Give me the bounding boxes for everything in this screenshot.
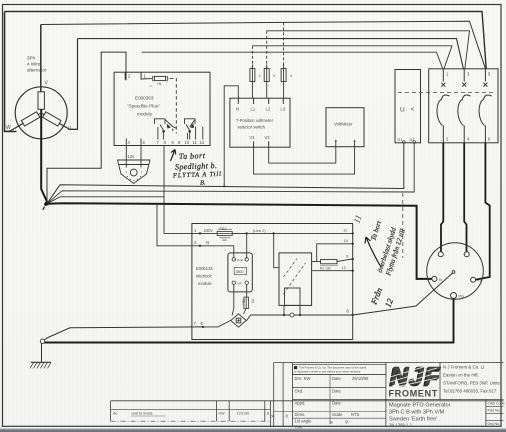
ground xyxy=(41,344,43,363)
svg-text:D2: D2 xyxy=(410,138,415,142)
svg-text:Date: Date xyxy=(332,389,342,394)
wire inner module bottom left to earth diamond xyxy=(232,284,234,315)
wire fuse tap L2 (dash) xyxy=(266,31,268,68)
svg-text:Appd.: Appd. xyxy=(295,401,306,406)
svg-text:5: 5 xyxy=(143,140,146,145)
svg-text:+3: +3 xyxy=(477,279,481,283)
svg-text:3Ph C B with 3Ph V/M: 3Ph C B with 3Ph V/M xyxy=(389,410,445,416)
svg-text:9: 9 xyxy=(346,253,349,258)
annotation handwritten note Ta bort xyxy=(172,151,221,186)
svg-text:CAD Code: CAD Code xyxy=(488,402,505,406)
annotation handwritten arrow (module) xyxy=(171,150,176,162)
svg-text:3: 3 xyxy=(273,74,275,78)
svg-text:7: 7 xyxy=(194,321,197,326)
wire breaker pin2 to connector xyxy=(441,143,443,252)
svg-text:Spedlight b.: Spedlight b. xyxy=(175,161,217,171)
svg-text:2N.1399.1.2: 2N.1399.1.2 xyxy=(389,423,412,428)
svg-text:Ta bort: Ta bort xyxy=(179,151,206,161)
svg-text:1: 1 xyxy=(194,228,197,233)
svg-text:9: 9 xyxy=(164,140,167,145)
undervoltage release U< xyxy=(395,70,421,143)
fuse FS3 xyxy=(264,65,269,99)
voltmeter M1 xyxy=(326,108,364,147)
svg-text:2: 2 xyxy=(128,74,131,79)
wire fan1 neutral to D1 xyxy=(48,143,404,203)
svg-text:1: 1 xyxy=(144,74,147,79)
fuse FS2 xyxy=(250,65,255,99)
svg-text:E00b134: E00b134 xyxy=(196,266,213,271)
drawing title xyxy=(389,403,451,428)
svg-text:4: 4 xyxy=(128,140,131,145)
svg-text:E: E xyxy=(201,321,204,326)
svg-text:Easton on the Hill,: Easton on the Hill, xyxy=(443,373,479,378)
resistor R1 xyxy=(312,261,321,263)
svg-text:Från: Från xyxy=(368,286,384,306)
svg-text:interlock: interlock xyxy=(196,274,212,279)
svg-text:11: 11 xyxy=(193,140,198,145)
svg-text:3Ph: 3Ph xyxy=(27,56,36,61)
wire N tap to interlock pin2 xyxy=(157,203,199,245)
wire connector centre to interlock pin6 xyxy=(353,273,453,315)
svg-text:⚲: ⚲ xyxy=(345,420,349,425)
svg-text:3: 3 xyxy=(467,72,470,77)
wire V phase (alternator V to fuse tap and breaker pin 5) xyxy=(41,21,486,69)
copyright notice box xyxy=(292,364,386,374)
svg-text:L3: L3 xyxy=(281,107,286,112)
fuse FS1 xyxy=(217,231,247,235)
svg-text:Dims.: Dims. xyxy=(295,412,306,417)
wire 240v riser (module pin9 down to interlock pin1) xyxy=(164,146,199,234)
svg-text:Tel.01780 480033, Fax.017: Tel.01780 480033, Fax.017 xyxy=(443,389,497,394)
svg-text:7-Position voltmeter: 7-Position voltmeter xyxy=(236,118,274,123)
svg-text:3800: 3800 xyxy=(236,270,244,274)
svg-text:+12v: +12v xyxy=(125,154,135,159)
svg-text:alternator: alternator xyxy=(27,68,47,73)
wire breaker pin4 to connector xyxy=(464,143,466,252)
svg-text:2: 2 xyxy=(259,74,261,78)
relay K1 xyxy=(279,253,312,306)
svg-text:Date: Date xyxy=(332,376,342,381)
wire pin10 xyxy=(317,244,353,262)
wire module pins 4,5 to lamp xyxy=(126,146,141,168)
svg-text:Scale: Scale xyxy=(332,412,343,417)
svg-text:00: 00 xyxy=(271,415,275,419)
title block row text xyxy=(271,376,369,429)
scanner edge band xyxy=(0,429,506,432)
svg-text:W: W xyxy=(6,125,11,131)
svg-text:PG: PG xyxy=(459,295,465,299)
svg-text:module: module xyxy=(198,281,212,286)
svg-text:R1 12k: R1 12k xyxy=(320,267,331,271)
alternator G1 xyxy=(5,87,78,139)
svg-text:6: 6 xyxy=(347,309,350,314)
svg-text:4: 4 xyxy=(290,74,292,78)
svg-text:und to mods.: und to mods. xyxy=(132,412,154,416)
svg-text:240v: 240v xyxy=(204,228,214,233)
svg-text:HP: HP xyxy=(238,281,242,285)
svg-text:11: 11 xyxy=(343,228,348,233)
wire diamond to E pin xyxy=(203,321,230,327)
svg-text:6: 6 xyxy=(488,137,491,142)
svg-text:6: 6 xyxy=(172,140,175,145)
svg-text:12: 12 xyxy=(342,265,347,270)
svg-text:12/1/00: 12/1/00 xyxy=(237,412,250,416)
wire V1 to voltmeter xyxy=(254,147,355,174)
svg-text:1A: 1A xyxy=(251,298,255,303)
circuit breaker Q1 xyxy=(429,69,498,143)
svg-text:8: 8 xyxy=(286,414,289,419)
svg-text:U: U xyxy=(68,126,72,132)
svg-text:28/10/99: 28/10/99 xyxy=(352,376,369,381)
linkage dashed line xyxy=(398,92,493,94)
svg-text:FLYTTA A Till: FLYTTA A Till xyxy=(172,171,221,180)
annotation handwritten note Fran 12 xyxy=(368,286,395,309)
connector J1 xyxy=(427,243,484,300)
svg-text:10: 10 xyxy=(344,238,349,243)
svg-text:Ta bort: Ta bort xyxy=(369,219,383,242)
svg-text:Part No.: Part No. xyxy=(488,409,501,413)
svg-text:FROMENT: FROMENT xyxy=(389,389,438,399)
transistor Q2 inside module xyxy=(185,119,203,140)
svg-text:or disclosed in whole or part: or disclosed in whole or part without pr… xyxy=(294,370,361,374)
svg-text:Org No.: Org No. xyxy=(488,422,501,426)
svg-text:8: 8 xyxy=(178,140,181,145)
fuse link symbol inside module xyxy=(141,76,168,81)
svg-text:⌀: ⌀ xyxy=(330,420,333,425)
earth point and ground xyxy=(40,339,44,343)
fuse FS4 xyxy=(281,65,286,99)
svg-text:"Speedlite Plus": "Speedlite Plus" xyxy=(127,104,160,109)
wire fuse tap L1 (dash) xyxy=(251,46,253,68)
wire U phase (alternator U to breaker pin 3) xyxy=(78,39,464,70)
wire fan2 to D2 xyxy=(48,143,415,203)
dashed link inside module xyxy=(170,79,177,134)
title block xyxy=(271,363,504,427)
annotation handwritten note overload xyxy=(369,219,407,278)
svg-text:L1: L1 xyxy=(251,107,256,112)
transistor Q1 inside module xyxy=(155,119,177,140)
wire W phase (alternator W to breaker pin 5) xyxy=(5,12,487,69)
svg-text:Ckd.: Ckd. xyxy=(295,389,304,394)
svg-text:8: 8 xyxy=(267,412,269,416)
svg-text:1A: 1A xyxy=(222,238,227,242)
fuse F50 vertical xyxy=(246,284,248,297)
wire 240v rail to pin 11 xyxy=(232,232,353,234)
svg-text:4: 4 xyxy=(467,137,470,142)
svg-text:VoltMeter: VoltMeter xyxy=(334,122,353,127)
revision strip xyxy=(111,401,504,421)
wire alternator neutral (thick, down to star point) xyxy=(41,109,47,203)
wire module pin2 loop xyxy=(47,52,126,202)
svg-text:E000363: E000363 xyxy=(135,96,154,101)
svg-text:12: 12 xyxy=(200,140,205,145)
svg-text:N: N xyxy=(236,107,239,112)
switch S1 voltmeter selector xyxy=(230,98,290,147)
NJF FROMENT logo xyxy=(389,362,441,398)
svg-text:5: 5 xyxy=(488,72,491,77)
wire pin12 xyxy=(312,270,353,272)
svg-text:1st angle: 1st angle xyxy=(295,419,313,424)
svg-text:N J Froment & Co. Lt: N J Froment & Co. Lt xyxy=(443,365,485,370)
svg-text:4 Wire: 4 Wire xyxy=(27,62,41,67)
svg-text:2: 2 xyxy=(194,240,197,245)
svg-text:10: 10 xyxy=(185,140,190,145)
svg-text:1: 1 xyxy=(446,72,449,77)
wire inner module top right to 240v rail xyxy=(246,233,248,257)
annotation handwritten arrow (interlock pin 11) xyxy=(366,237,381,267)
svg-text:Drn. KW: Drn. KW xyxy=(295,376,311,381)
wire pin6 rail xyxy=(247,315,353,321)
wire fan4 neutral main (thick) to connector N xyxy=(48,203,432,279)
svg-text:STAMFORD, PE9 3NP, Unite: STAMFORD, PE9 3NP, Unite xyxy=(443,381,500,386)
svg-text:<: < xyxy=(411,106,415,113)
svg-text:selector switch: selector switch xyxy=(238,125,266,130)
svg-text:L2: L2 xyxy=(266,107,271,112)
wire L1 fuse feed to breaker pin 1 xyxy=(252,46,452,69)
svg-text:V1: V1 xyxy=(250,135,256,140)
svg-text:11: 11 xyxy=(351,213,363,224)
svg-text:(Link 2): (Link 2) xyxy=(253,229,266,233)
module U1 Speedlite Plus xyxy=(114,72,210,145)
svg-text:D1: D1 xyxy=(398,138,403,142)
svg-text:7: 7 xyxy=(157,140,160,145)
svg-text:module: module xyxy=(137,112,153,117)
earth terminal diamond xyxy=(231,314,246,327)
svg-text:*A: *A xyxy=(157,81,162,86)
wire link2 rail down to relay xyxy=(274,233,279,267)
svg-text:NTS: NTS xyxy=(351,412,360,417)
svg-text:KW: KW xyxy=(219,412,226,416)
wire fan3 to interlock 240v xyxy=(48,197,165,204)
interlock inner module xyxy=(228,253,252,292)
wire fuse tap L3 (dash) xyxy=(283,22,285,68)
svg-text:F50: F50 xyxy=(242,299,246,305)
svg-text:Ac: Ac xyxy=(113,412,118,416)
wire E to earth point xyxy=(44,327,203,340)
svg-text:Magnate PTO Generator: Magnate PTO Generator xyxy=(389,403,451,409)
company address xyxy=(443,365,500,394)
svg-text:V: V xyxy=(45,81,49,87)
wire module pin1 feed to breaker pin 1 xyxy=(142,52,443,69)
wire L2 fuse feed to breaker pin 3 xyxy=(267,31,470,69)
svg-text:Date: Date xyxy=(332,401,342,406)
svg-text:This Froment & Co. Ltd. This: This Froment & Co. Ltd. This document ma… xyxy=(299,365,367,369)
svg-text:2: 2 xyxy=(446,137,449,142)
svg-text:B.: B. xyxy=(200,180,206,187)
wire breaker pin6 to connector xyxy=(476,143,490,280)
interlock outer box xyxy=(192,224,353,340)
svg-text:N: N xyxy=(439,278,442,282)
svg-text:V2: V2 xyxy=(265,135,271,140)
wire switch N feed xyxy=(224,86,238,187)
wire PG to earth (thick) xyxy=(45,299,454,343)
svg-text:12: 12 xyxy=(383,296,396,308)
wire V2 to voltmeter xyxy=(269,147,336,163)
svg-text:U: U xyxy=(400,107,405,114)
svg-text:2min: 2min xyxy=(237,258,244,262)
interlock right edge pins xyxy=(352,232,354,234)
node star point xyxy=(43,201,50,207)
svg-text:N: N xyxy=(206,240,209,245)
